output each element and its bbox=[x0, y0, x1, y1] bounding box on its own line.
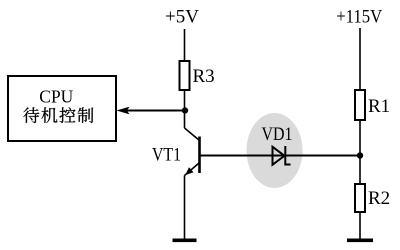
resistor R3 bbox=[180, 61, 190, 90]
ground (left) bbox=[173, 239, 197, 243]
wire R2 to ground bbox=[359, 212, 361, 239]
emitter wire down bbox=[184, 176, 186, 239]
base wire to diode and R1/R2 node bbox=[201, 155, 361, 157]
ground (right) bbox=[347, 239, 373, 243]
wire node to R2 bbox=[359, 156, 361, 185]
svg-text:R3: R3 bbox=[193, 66, 215, 87]
diode VD1 bbox=[273, 146, 291, 165]
wire R3 to node bbox=[184, 90, 186, 111]
highlight ellipse around VD1 bbox=[247, 113, 303, 188]
node junction dot R1/R2 bbox=[357, 152, 363, 158]
transistor Q VT1 (NPN) bbox=[185, 111, 200, 176]
svg-text:VD1: VD1 bbox=[262, 124, 293, 145]
resistor R2 bbox=[355, 184, 365, 212]
svg-text:R1: R1 bbox=[368, 96, 390, 117]
svg-text:+115V: +115V bbox=[336, 6, 382, 27]
svg-text:+5V: +5V bbox=[165, 6, 199, 27]
label 待机控制 (drawn glyph outlines) bbox=[23, 107, 93, 123]
svg-text:VT1: VT1 bbox=[152, 145, 181, 166]
svg-text:CPU: CPU bbox=[39, 87, 73, 107]
resistor R1 bbox=[355, 90, 365, 120]
wire arrow from VT1 collector node into CPU box bbox=[126, 110, 185, 112]
wire +5V to R3 bbox=[184, 29, 186, 61]
wire R1 to node bbox=[359, 120, 361, 156]
CPU standby control box bbox=[8, 76, 116, 141]
svg-text:R2: R2 bbox=[368, 188, 390, 209]
node junction dot bbox=[182, 107, 188, 113]
wire +115V to R1 bbox=[359, 28, 361, 90]
